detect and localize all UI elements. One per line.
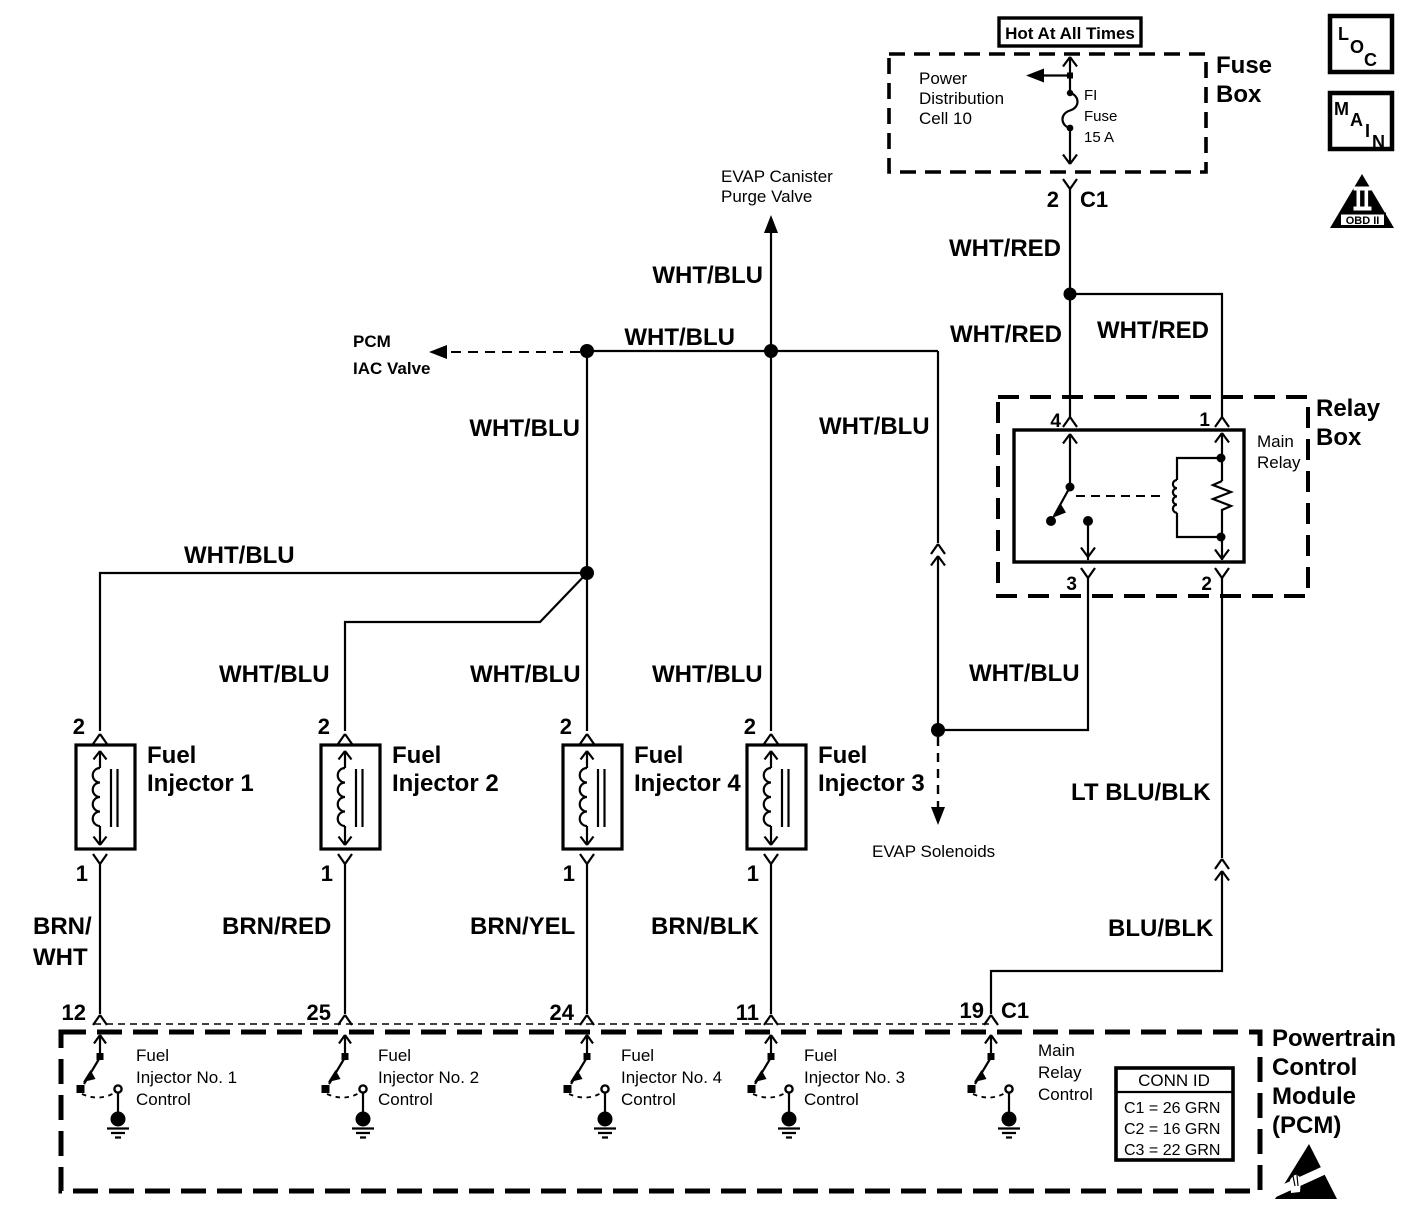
wire: feed to injector 1 bbox=[100, 573, 587, 731]
svg-text:2: 2 bbox=[560, 714, 572, 739]
wire: drop continues to junction bbox=[937, 556, 939, 730]
svg-text:Relay: Relay bbox=[1038, 1063, 1082, 1082]
svg-text:1: 1 bbox=[321, 861, 333, 886]
LOC symbol bbox=[1330, 16, 1392, 72]
svg-text:WHT/BLU: WHT/BLU bbox=[652, 661, 763, 688]
svg-text:Module: Module bbox=[1272, 1083, 1356, 1110]
svg-text:Fuse: Fuse bbox=[1084, 108, 1117, 125]
PCM IAC valve note bbox=[353, 332, 431, 378]
svg-text:Injector 1: Injector 1 bbox=[147, 770, 254, 797]
pin 25 bbox=[307, 1000, 352, 1025]
svg-text:Hot At All Times: Hot At All Times bbox=[1005, 24, 1135, 43]
svg-text:N: N bbox=[1372, 132, 1385, 152]
svg-text:L: L bbox=[1338, 24, 1349, 44]
svg-text:WHT/BLU: WHT/BLU bbox=[470, 661, 581, 688]
svg-text:WHT/BLU: WHT/BLU bbox=[624, 324, 735, 351]
svg-text:Distribution: Distribution bbox=[919, 89, 1004, 108]
svg-text:2: 2 bbox=[318, 714, 330, 739]
power distribution note bbox=[919, 69, 1004, 128]
pin 19 C1 bbox=[960, 998, 1030, 1025]
fuse value label bbox=[1084, 87, 1117, 146]
svg-text:(PCM): (PCM) bbox=[1272, 1112, 1341, 1139]
svg-text:EVAP Solenoids: EVAP Solenoids bbox=[872, 842, 995, 861]
fuse FI 15A (squiggle) bbox=[1062, 90, 1077, 132]
svg-text:WHT/RED: WHT/RED bbox=[949, 235, 1061, 262]
fuel injector 2 bbox=[318, 714, 499, 886]
svg-text:EVAP Canister: EVAP Canister bbox=[721, 167, 833, 186]
pin 3 connector bbox=[1066, 568, 1095, 595]
svg-text:Fuel: Fuel bbox=[392, 742, 441, 769]
svg-text:Injector No. 3: Injector No. 3 bbox=[804, 1068, 905, 1087]
svg-text:Control: Control bbox=[378, 1090, 433, 1109]
svg-text:4: 4 bbox=[1050, 411, 1061, 432]
node: injector feed junction bbox=[580, 566, 594, 580]
svg-text:11: 11 bbox=[736, 1000, 759, 1025]
svg-text:PCM: PCM bbox=[353, 332, 391, 351]
svg-text:LT BLU/BLK: LT BLU/BLK bbox=[1071, 779, 1211, 806]
svg-text:2: 2 bbox=[744, 714, 756, 739]
svg-text:Injector 4: Injector 4 bbox=[634, 770, 741, 797]
wire: injector 1 to pin 12 (BRN/WHT) bbox=[99, 864, 101, 1014]
node: bus / IAC junction bbox=[580, 344, 594, 358]
CONN ID table bbox=[1116, 1068, 1233, 1160]
MAIN symbol bbox=[1330, 93, 1392, 152]
wire: dashed branch to PCM IAC valve bbox=[429, 345, 580, 359]
svg-text:WHT/RED: WHT/RED bbox=[950, 321, 1062, 348]
relay coil bbox=[1173, 433, 1229, 537]
OBD II symbol bbox=[1330, 174, 1394, 228]
svg-text:FI: FI bbox=[1084, 87, 1097, 104]
svg-text:BRN/RED: BRN/RED bbox=[222, 913, 331, 940]
svg-text:1: 1 bbox=[1199, 410, 1210, 431]
svg-text:Injector 3: Injector 3 bbox=[818, 770, 925, 797]
wire: branch to power distribution (left arrow) bbox=[1026, 69, 1073, 83]
svg-text:Injector No. 4: Injector No. 4 bbox=[621, 1068, 722, 1087]
note fuel injector no.4 control bbox=[621, 1046, 722, 1109]
svg-text:Control: Control bbox=[136, 1090, 191, 1109]
pin 1 connector bbox=[1199, 410, 1229, 431]
svg-text:25: 25 bbox=[307, 1000, 331, 1025]
svg-text:Control: Control bbox=[804, 1090, 859, 1109]
svg-text:1: 1 bbox=[747, 861, 759, 886]
svg-text:2: 2 bbox=[1201, 574, 1212, 595]
inline connector on drop wire bbox=[931, 544, 945, 566]
PCM box (bold dashed) bbox=[61, 1032, 1260, 1191]
wire: dashed to EVAP solenoids bbox=[931, 737, 945, 825]
svg-text:WHT/BLU: WHT/BLU bbox=[969, 660, 1080, 687]
svg-text:C1: C1 bbox=[1001, 998, 1029, 1023]
fuel injector 3 bbox=[744, 714, 925, 886]
pin 12 bbox=[62, 1000, 107, 1025]
svg-text:Main: Main bbox=[1038, 1041, 1075, 1060]
svg-text:BLU/BLK: BLU/BLK bbox=[1108, 915, 1214, 942]
relay resistor bbox=[1213, 458, 1231, 560]
relay switch (pin4 to pin3) bbox=[1046, 434, 1095, 560]
wire: WHT/RED from fuse to relay pin 4 bbox=[1069, 189, 1071, 417]
svg-text:Fuse: Fuse bbox=[1216, 52, 1272, 79]
main relay label bbox=[1257, 432, 1301, 472]
label BRN/WHT bbox=[33, 913, 92, 971]
svg-text:M: M bbox=[1334, 99, 1349, 119]
node: junction on WHT/RED bbox=[1064, 288, 1077, 301]
svg-text:WHT/BLU: WHT/BLU bbox=[819, 413, 930, 440]
driver: main relay control bbox=[968, 1035, 1021, 1138]
svg-text:WHT/BLU: WHT/BLU bbox=[469, 415, 580, 442]
svg-text:C1: C1 bbox=[1080, 187, 1108, 212]
svg-text:Control: Control bbox=[1038, 1085, 1093, 1104]
svg-text:24: 24 bbox=[550, 1000, 575, 1025]
svg-text:C2 = 16 GRN: C2 = 16 GRN bbox=[1124, 1121, 1220, 1138]
svg-text:CONN ID: CONN ID bbox=[1138, 1071, 1210, 1090]
svg-text:IAC Valve: IAC Valve bbox=[353, 359, 431, 378]
svg-text:C: C bbox=[1364, 50, 1377, 70]
svg-text:Fuel: Fuel bbox=[621, 1046, 654, 1065]
wire: feed to injector 3 bbox=[770, 351, 772, 731]
svg-text:Injector No. 1: Injector No. 1 bbox=[136, 1068, 237, 1087]
svg-text:Injector No. 2: Injector No. 2 bbox=[378, 1068, 479, 1087]
main relay outline bbox=[1014, 430, 1244, 562]
svg-text:Purge Valve: Purge Valve bbox=[721, 187, 812, 206]
svg-text:1: 1 bbox=[563, 861, 575, 886]
wire: WHT/BLU down from IAC junction bbox=[586, 351, 588, 573]
svg-text:Fuel: Fuel bbox=[634, 742, 683, 769]
svg-text:Box: Box bbox=[1316, 424, 1362, 451]
svg-text:C3 = 22 GRN: C3 = 22 GRN bbox=[1124, 1142, 1220, 1159]
svg-text:12: 12 bbox=[62, 1000, 86, 1025]
svg-text:Relay: Relay bbox=[1316, 395, 1381, 422]
svg-text:2: 2 bbox=[1047, 187, 1059, 212]
fuel injector 4 bbox=[560, 714, 742, 886]
svg-text:C1 = 26 GRN: C1 = 26 GRN bbox=[1124, 1100, 1220, 1117]
wire: bus drop toward EVAP solenoids junction bbox=[937, 351, 939, 543]
wire: relay pin 3 to junction bbox=[938, 578, 1088, 730]
EVAP canister purge valve note bbox=[721, 167, 833, 206]
svg-text:A: A bbox=[1350, 110, 1363, 130]
svg-text:19: 19 bbox=[960, 998, 984, 1023]
svg-text:Powertrain: Powertrain bbox=[1272, 1025, 1396, 1052]
svg-text:Fuel: Fuel bbox=[147, 742, 196, 769]
svg-text:I: I bbox=[1365, 121, 1370, 141]
relay box label bbox=[1316, 395, 1381, 451]
powertrain control module label bbox=[1272, 1025, 1396, 1139]
fuse box (dashed) bbox=[889, 54, 1206, 172]
svg-text:Fuel: Fuel bbox=[818, 742, 867, 769]
pin 24 bbox=[550, 1000, 594, 1025]
ESD symbol bbox=[1273, 1144, 1337, 1199]
driver: fuel injector no.4 control bbox=[564, 1035, 617, 1138]
fuse box label bbox=[1216, 52, 1272, 108]
svg-text:15 A: 15 A bbox=[1084, 129, 1114, 146]
svg-text:2: 2 bbox=[73, 714, 85, 739]
wire: injector 3 to pin 11 (BRN/BLK) bbox=[770, 864, 772, 1014]
wire: relay pin 2 drop (LT BLU/BLK) bbox=[1221, 578, 1223, 858]
driver: fuel injector no.1 control bbox=[77, 1035, 130, 1138]
wire: WHT/RED branch to relay pin 1 bbox=[1070, 294, 1222, 417]
Hot At All Times tag bbox=[999, 18, 1141, 46]
wire: up arrow to EVAP canister purge valve bbox=[764, 215, 778, 351]
note fuel injector no.1 control bbox=[136, 1046, 237, 1109]
pin 11 bbox=[736, 1000, 778, 1025]
svg-text:Main: Main bbox=[1257, 432, 1294, 451]
svg-text:Fuel: Fuel bbox=[378, 1046, 411, 1065]
connector 2 C1 at fuse box output bbox=[1047, 179, 1108, 212]
svg-text:1: 1 bbox=[76, 861, 88, 886]
svg-text:BRN/YEL: BRN/YEL bbox=[470, 913, 575, 940]
driver: fuel injector no.2 control bbox=[322, 1035, 375, 1138]
svg-text:Control: Control bbox=[1272, 1054, 1357, 1081]
svg-text:Cell 10: Cell 10 bbox=[919, 109, 972, 128]
svg-text:Fuel: Fuel bbox=[804, 1046, 837, 1065]
driver: fuel injector no.3 control bbox=[748, 1035, 801, 1138]
svg-text:Injector 2: Injector 2 bbox=[392, 770, 499, 797]
node: bus / purge riser junction bbox=[764, 344, 778, 358]
pin 2 connector bbox=[1201, 568, 1229, 595]
note fuel injector no.3 control bbox=[804, 1046, 905, 1109]
fuel injector 1 bbox=[73, 714, 254, 886]
wire: feed to injector 2 (diagonal) bbox=[345, 573, 587, 731]
wire: BLU/BLK to PCM pin 19 bbox=[991, 871, 1222, 1014]
svg-text:WHT/BLU: WHT/BLU bbox=[184, 542, 295, 569]
svg-text:Control: Control bbox=[621, 1090, 676, 1109]
wire: feed to injector 4 bbox=[586, 573, 588, 731]
svg-text:OBD II: OBD II bbox=[1346, 215, 1380, 227]
svg-text:Relay: Relay bbox=[1257, 453, 1301, 472]
svg-text:O: O bbox=[1350, 37, 1364, 57]
wire: fuse output down arrow bbox=[1063, 128, 1077, 164]
inline connector on pin 2 wire bbox=[1215, 859, 1229, 881]
svg-text:WHT/RED: WHT/RED bbox=[1097, 317, 1209, 344]
svg-text:BRN/BLK: BRN/BLK bbox=[651, 913, 760, 940]
PCM connector line C1 (thin dashed) bbox=[94, 1023, 991, 1025]
svg-text:Fuel: Fuel bbox=[136, 1046, 169, 1065]
svg-text:WHT/BLU: WHT/BLU bbox=[652, 262, 763, 289]
svg-text:BRN/: BRN/ bbox=[33, 913, 92, 940]
relay actuating link (dashed) bbox=[1076, 495, 1163, 497]
relay box (dashed) bbox=[998, 397, 1308, 596]
svg-text:Power: Power bbox=[919, 69, 968, 88]
wire: main WHT/BLU horizontal bus bbox=[587, 350, 938, 352]
note fuel injector no.2 control bbox=[378, 1046, 479, 1109]
pin 4 connector bbox=[1050, 411, 1077, 432]
svg-text:3: 3 bbox=[1066, 574, 1077, 595]
wire: injector 2 to pin 25 (BRN/RED) bbox=[344, 864, 346, 1014]
wire: injector 4 to pin 24 (BRN/YEL) bbox=[586, 864, 588, 1014]
svg-text:WHT/BLU: WHT/BLU bbox=[219, 661, 330, 688]
svg-text:Box: Box bbox=[1216, 81, 1262, 108]
note main relay control bbox=[1038, 1041, 1093, 1104]
node: EVAP solenoids junction bbox=[931, 723, 945, 737]
svg-text:WHT: WHT bbox=[33, 944, 88, 971]
wire: feed from Hot At All Times into fuse bbox=[1063, 57, 1077, 93]
